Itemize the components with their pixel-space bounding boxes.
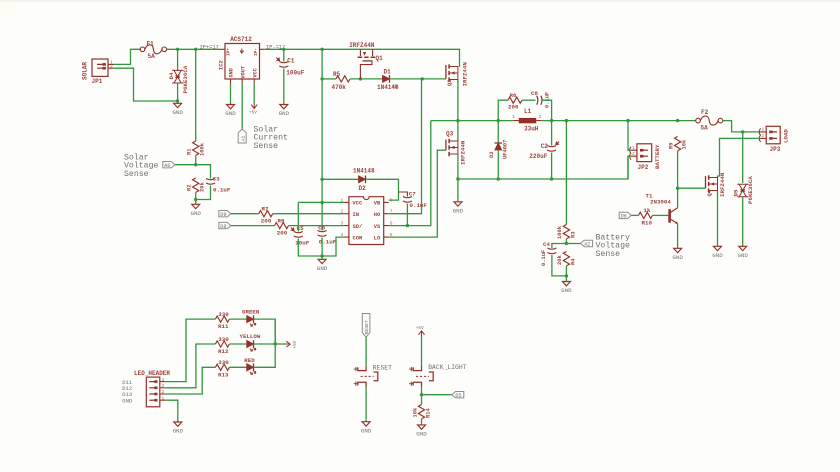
svg-text:C8: C8 [531,90,538,97]
label tag D8 [219,222,231,229]
svg-text:3: 3 [162,383,165,389]
LED green [247,315,256,326]
inductor L1 33uH [512,108,541,133]
resistor R2 20k [186,178,205,192]
wire C1 top [283,49,285,61]
svg-text:D5: D5 [455,393,461,399]
svg-text:P6KE36CA: P6KE36CA [182,65,189,93]
wire BACK_LIGHT switch to node [421,387,423,405]
gate driver IC1 IR2104 [341,197,393,245]
junction solar sense tap [194,48,197,51]
wire R6 to C8 [522,99,535,101]
svg-text:F2: F2 [701,109,709,116]
capacitor C1 100uF [276,58,304,77]
svg-text:R14: R14 [426,408,432,418]
svg-text:ACS712: ACS712 [230,36,252,43]
wire C4 branch top [552,244,567,249]
wire IC2 GND pin [230,84,232,105]
svg-text:2: 2 [539,114,542,120]
wire Q2 source to switch node [457,80,459,121]
text RED [244,357,255,364]
capacitor C7 0.1uF [403,191,428,210]
diode D3 UF4007 [489,140,508,159]
wire Q4 gate row [678,187,706,189]
svg-text:GND: GND [453,207,464,214]
svg-text:D1: D1 [384,69,392,76]
svg-text:IP+=17: IP+=17 [200,44,219,50]
junction D4 top [176,48,179,51]
wire RESET switch to ground [365,387,367,422]
svg-text:VCC: VCC [252,68,258,77]
svg-text:Q4: Q4 [707,189,713,196]
ground under R14 [416,425,427,438]
wire header pin1 to ground [165,400,178,422]
junction R2 bottom [194,198,197,201]
svg-text:P6KE36CA: P6KE36CA [747,176,754,204]
svg-text:VCC: VCC [353,201,363,207]
wire node to tag A0 [175,164,196,166]
ground under LED_HEADER [173,422,184,435]
svg-text:R2: R2 [186,185,192,191]
supply arrow +5V at IC2 VCC [249,104,257,116]
supply arrow at LED common [286,340,298,348]
svg-text:C4: C4 [543,241,550,248]
svg-text:Sense: Sense [596,250,621,259]
svg-text:LED_HEADER: LED_HEADER [134,370,170,377]
junction solar divider node [194,163,197,166]
svg-text:100k: 100k [557,225,563,239]
wire supply to BACK_LIGHT switch [421,336,423,366]
resistor R11 330 [215,311,229,330]
wire header pin4 to R11 [165,319,215,382]
svg-text:2: 2 [632,151,635,157]
svg-text:R5: R5 [333,71,341,78]
wire JP3 pin2 to Q4 drain [717,138,760,176]
svg-text:R8: R8 [278,217,285,224]
svg-text:VS: VS [374,224,381,230]
transistor Q1 IRFZ44N [349,42,383,79]
svg-text:Sense: Sense [254,142,279,151]
svg-text:2: 2 [162,389,165,395]
wire T1 emitter to ground [677,224,679,249]
wire D4 bottom [177,83,179,103]
ground under D4 [172,103,183,116]
junction C2 bottom [550,177,553,180]
ground under Q3 [453,202,464,215]
wire red LED to common [254,319,276,367]
svg-text:5A: 5A [148,53,156,60]
wire Q3 source to ground [457,156,459,202]
fuse F2 [696,109,723,131]
svg-text:D3: D3 [489,152,495,158]
wire LO to Q3 gate [389,150,446,237]
svg-text:BATTERY: BATTERY [654,144,661,169]
diode D1 1N4148 [377,69,399,92]
svg-text:IRFZ44N: IRFZ44N [719,172,726,197]
wire VCC row [298,201,344,203]
svg-text:5A: 5A [701,124,709,131]
net label IP- right [266,44,285,50]
junction D3 bottom [497,177,500,180]
wire IC2 VOUT to tag A1 [241,84,243,129]
capacitor C8 0.1uF [531,90,551,108]
svg-text:GND: GND [173,428,184,435]
svg-text:GND: GND [122,397,133,404]
svg-text:GND: GND [712,252,723,259]
svg-text:Sense: Sense [124,170,149,179]
svg-text:200: 200 [261,218,272,225]
svg-text:A0: A0 [164,163,170,169]
wire C3 branch top [196,165,211,179]
wire T1 collector [677,188,679,208]
svg-text:1: 1 [762,127,765,133]
label tag RESET [362,314,370,338]
wire VCC riser [321,49,323,202]
junction R9 top [676,119,679,122]
svg-text:GND: GND [317,265,328,272]
svg-text:SD/: SD/ [353,224,363,230]
svg-text:BACK_LIGHT: BACK_LIGHT [428,364,467,371]
svg-text:GND: GND [190,210,201,217]
wire rail IC2 to Q2 drain [265,49,460,67]
ground under R4 [561,282,572,295]
wire tag D6 to R10 [631,214,638,216]
svg-text:1k: 1k [644,207,651,214]
svg-text:R9: R9 [668,143,674,149]
wire R2 bottom [195,193,197,205]
svg-text:SOLAR: SOLAR [82,62,89,80]
connector JP3 LOAD [759,126,789,153]
ground under C5 C6 [317,259,328,272]
ground under R2 [190,204,201,217]
svg-text:RED: RED [244,357,255,364]
wire node to tag D5 [422,394,452,396]
svg-text:LO: LO [374,235,381,241]
svg-text:+5V: +5V [249,111,257,116]
junction R5 left [320,77,323,80]
svg-text:IP+: IP+ [226,48,231,56]
svg-text:R6: R6 [510,92,517,99]
svg-text:+5V: +5V [416,326,424,331]
junction ground tap C5 C6 [320,254,323,257]
svg-text:A2: A2 [584,242,590,248]
capacitor C4 0.1uF [541,241,556,266]
wire D2 row left [322,178,358,180]
svg-text:GND: GND [737,252,748,259]
svg-text:Q3: Q3 [446,131,454,138]
connector LED_HEADER [122,370,170,407]
switch S1 RESET [354,364,392,386]
svg-text:HO: HO [374,212,381,218]
text YELLOW [240,333,261,340]
wire C7 bottom to VS [406,204,408,226]
ground under RESET switch [361,422,372,435]
wire ground rail [458,156,628,179]
svg-text:R13: R13 [218,371,229,378]
svg-text:2N3904: 2N3904 [650,199,671,206]
resistor R10 1k [639,207,653,227]
wire D2 to VB riser [366,179,399,200]
svg-text:R12: R12 [218,348,229,355]
wire C5 riser [297,202,299,231]
wire output rail [541,120,695,122]
svg-text:JP1: JP1 [92,78,103,85]
wire D3 top [497,121,499,143]
wire C3 branch bottom [196,186,211,200]
svg-text:C7: C7 [409,191,416,198]
svg-text:R4: R4 [570,258,576,265]
svg-text:IRFZ44N: IRFZ44N [460,140,467,165]
wire yellow LED to common [254,343,276,345]
wire C1 bottom [283,69,285,105]
current sensor IC2 ACS712 [218,36,265,84]
wire green LED to common [254,319,276,344]
LED red [247,364,256,375]
wire R5 to D1 [350,78,383,80]
transistor Q2 IRFZ44N [446,62,469,87]
wire R12 to yellow LED [229,343,246,345]
svg-text:0.1uF: 0.1uF [213,187,231,194]
svg-text:IC2: IC2 [218,60,224,70]
svg-text:10k: 10k [682,139,688,149]
wire D5 bottom [742,197,744,247]
ground under IC2 [225,105,236,118]
wire JP2 pin1 riser [628,121,631,151]
junction HO riser [421,77,424,80]
junction Q1 gate [359,77,362,80]
svg-text:330: 330 [218,311,229,318]
wire C2 top [551,121,553,146]
wire header pin3 to R12 [165,344,215,388]
text GREEN [242,308,260,315]
wire R14 to ground [421,419,423,425]
svg-text:COM: COM [353,235,363,241]
svg-text:200: 200 [508,104,519,111]
svg-text:JP3: JP3 [770,146,781,153]
connector JP2 BATTERY [630,144,661,171]
svg-text:VB: VB [374,201,381,207]
svg-text:YELLOW: YELLOW [240,333,261,340]
svg-text:10uF: 10uF [295,239,309,246]
svg-text:GND: GND [229,68,235,77]
svg-text:100k: 100k [200,142,206,156]
svg-text:GND: GND [416,431,427,438]
wire Q4 source to ground [717,191,719,246]
svg-text:10k: 10k [412,407,418,417]
fuse F1 [140,40,166,60]
svg-text:20k: 20k [200,182,206,192]
resistor R4 20k [557,252,576,266]
svg-text:470k: 470k [332,84,347,91]
svg-text:R1: R1 [186,149,192,155]
junction VCC riser tap [320,48,323,51]
svg-text:R3: R3 [570,232,576,238]
label tag D9 [219,211,231,218]
wire R13 to red LED [229,366,246,368]
svg-text:2: 2 [762,133,765,139]
wire D4 top [177,49,179,70]
junction D4 bottom [176,99,179,102]
wire R9 to Q4 gate row [677,151,679,188]
junction D2 row [320,178,323,181]
wire battery sense riser [565,121,567,225]
wire R8 to IC1 SD [289,225,345,227]
svg-text:220uF: 220uF [529,153,547,160]
svg-text:UF4007: UF4007 [502,140,508,159]
capacitor C3 0.1uF [206,176,231,194]
net label IP+ left [200,44,219,50]
svg-text:R7: R7 [262,206,269,213]
svg-text:18: 18 [392,84,398,90]
wire C6 riser [321,202,323,230]
wire C4 branch bottom [552,255,567,276]
wire tag RESET to switch [365,337,367,366]
supply arrow above BACK_LIGHT switch [416,326,425,336]
wire R1 to node [195,156,197,165]
connector JP1 SOLAR [82,59,114,85]
svg-text:D6: D6 [621,214,627,220]
transistor Q3 IRFZ44N [446,131,467,165]
svg-text:1: 1 [512,114,515,120]
wire switch node [431,120,514,122]
svg-text:D2: D2 [359,185,367,192]
svg-text:GND: GND [672,254,683,261]
label tag D6 [619,212,631,219]
capacitor C2 220uF [529,142,559,160]
TVS diode D5 P6KE36CA [733,176,754,204]
svg-text:JP2: JP2 [638,164,649,171]
label tag A0 [163,162,175,169]
svg-text:2: 2 [110,63,113,69]
svg-text:D5: D5 [733,189,740,196]
svg-text:1: 1 [632,145,635,151]
junction C1 tap [282,48,285,51]
svg-text:R11: R11 [218,323,229,330]
svg-text:IP-: IP- [254,48,259,56]
junction R4 bottom [565,274,568,277]
ground under T1 [672,248,683,261]
svg-text:RESET: RESET [373,364,392,371]
wire C2 bottom [551,153,553,180]
resistor R3 100k [557,225,576,240]
net label 18 [392,84,398,90]
wire snubber right riser [542,100,551,120]
switch S2 BACK_LIGHT [409,364,467,387]
junction C7-VS [406,224,409,227]
svg-text:R10: R10 [642,220,653,227]
wire tag D9 to R7 [231,213,259,215]
junction battery divider node [565,242,568,245]
svg-text:D4: D4 [168,72,175,79]
junction T1 collector [676,187,679,190]
wire LED common to supply [275,343,286,345]
wire R5 row left [322,78,336,80]
svg-text:1N4148: 1N4148 [353,168,375,175]
junction ground rail left [456,177,459,180]
resistor R1 100k [186,141,205,156]
svg-text:IRFZ44N: IRFZ44N [462,62,469,87]
label tag D5 [452,392,464,399]
svg-text:C3: C3 [213,176,220,183]
label tag A2 [581,240,593,247]
svg-text:A1: A1 [240,136,246,142]
svg-text:0.1uF: 0.1uF [541,250,547,266]
svg-text:GND: GND [279,110,290,117]
resistor R8 200 [275,217,289,236]
text Battery Voltage Sense [596,233,630,259]
svg-text:Q1: Q1 [376,55,384,62]
junction BACK_LIGHT node [420,393,423,396]
svg-text:C2: C2 [541,143,549,150]
label tag A1 solar current [238,129,246,143]
LED yellow [247,340,256,351]
junction LED common [274,342,277,345]
wire R7 to IC1 IN [273,213,344,215]
svg-text:F1: F1 [147,40,155,47]
svg-text:IN: IN [353,212,359,218]
transistor Q4 IRFZ44N [706,172,726,197]
ground under D5 [737,246,748,259]
wire R3 to node [565,239,567,244]
svg-text:330: 330 [218,359,229,366]
wire JP1 pin2 to ground loop [114,68,178,101]
svg-text:GND: GND [225,110,236,117]
wire snubber left riser [498,100,508,120]
resistor R9 10k [668,137,687,151]
svg-text:200: 200 [277,230,288,237]
resistor R14 10k [412,405,431,419]
wire solar sense riser [195,49,197,141]
wire Q3 drain [457,121,459,139]
svg-text:330: 330 [218,336,229,343]
svg-text:100uF: 100uF [286,70,304,77]
svg-text:GND: GND [561,287,572,294]
wire C7 top jog [399,192,408,197]
wire F2 to JP3 pin1 [723,121,761,132]
wire C6 bottom [321,238,323,260]
transistor T1 2N3904 [646,193,678,224]
svg-text:4: 4 [162,377,165,383]
svg-text:20k: 20k [557,255,563,265]
junction VCC row [320,201,323,204]
wire D5 top [742,132,744,183]
text Solar Current Sense [254,124,288,151]
svg-text:GND: GND [172,109,183,116]
wire header pin2 to R13 [165,367,215,394]
junction battery sense tap [565,119,568,122]
resistor R12 330 [215,336,229,355]
svg-text:VOUT: VOUT [240,66,246,78]
svg-text:+5V: +5V [293,340,298,348]
svg-text:1: 1 [162,395,165,401]
svg-text:L1: L1 [524,108,532,115]
wire fuse F1 to IC2 IP+ [167,48,218,50]
wire node to tag A2 [566,243,580,245]
resistor R13 330 [215,359,229,378]
svg-text:0.1uF: 0.1uF [410,202,428,209]
wire D1 to Q2 gate [390,78,446,80]
junction C2 top [550,119,553,122]
capacitor C6 0.1uF [318,225,337,246]
wire tag D8 to R8 [231,225,275,227]
junction snubber left [497,119,500,122]
svg-text:Q2: Q2 [447,80,453,86]
svg-text:C1: C1 [287,58,295,65]
resistor R6 200 [508,92,522,111]
junction JP2 riser [626,119,629,122]
wire D3 bottom [497,150,499,179]
svg-text:33uH: 33uH [524,126,539,133]
